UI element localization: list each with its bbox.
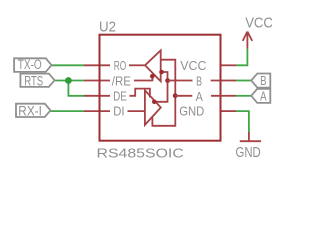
pin B	[221, 80, 236, 82]
internal net B path	[155, 72, 168, 102]
svg-text:B: B	[260, 73, 266, 88]
internal wire RO to receiver	[129, 64, 145, 66]
junction receiver B tap	[159, 70, 164, 75]
svg-text:RO: RO	[114, 58, 127, 73]
receiver buffer triangle	[145, 50, 161, 81]
junction B line	[165, 78, 170, 83]
pin /RE	[84, 80, 110, 82]
svg-text:RTS: RTS	[24, 73, 43, 88]
internal net A path	[152, 60, 175, 126]
wire A net	[236, 95, 252, 97]
bubble /RE	[150, 74, 155, 79]
internal wire A to pin	[175, 95, 221, 97]
svg-text:GND: GND	[236, 145, 261, 161]
svg-text:A: A	[260, 88, 267, 103]
internal wire DI to driver	[128, 110, 145, 112]
net flag TX-O	[14, 58, 51, 72]
junction driver B tap	[152, 100, 157, 105]
pin A	[221, 95, 236, 97]
junction RTS	[65, 77, 72, 84]
wire RTS branch to DE	[68, 81, 84, 96]
junction A line	[173, 93, 178, 98]
net flag A	[251, 89, 270, 103]
svg-text:DE: DE	[113, 88, 127, 103]
net flag RX-I	[16, 104, 51, 117]
svg-text:RS485SOIC: RS485SOIC	[97, 146, 185, 161]
svg-text:DI: DI	[113, 104, 124, 119]
svg-text:GND: GND	[179, 104, 204, 119]
pin DE	[84, 95, 110, 97]
ground symbol GND	[240, 132, 261, 141]
svg-text:U2: U2	[99, 20, 116, 36]
wire RX-I to DI	[51, 110, 85, 112]
pin VCC	[221, 64, 236, 66]
wire TX-O to RO	[52, 64, 85, 66]
svg-text:VCC: VCC	[245, 16, 273, 32]
svg-text:RX-I: RX-I	[18, 104, 42, 119]
internal wire DE enable	[130, 89, 150, 98]
svg-text:TX-O: TX-O	[18, 57, 42, 72]
pin GND	[221, 110, 236, 112]
pin RO	[84, 64, 110, 66]
internal wire /RE enable	[134, 78, 152, 81]
IC U2 box	[100, 35, 221, 141]
svg-text:A: A	[196, 89, 204, 104]
wire VCC net	[236, 48, 247, 65]
wire B net	[236, 80, 252, 82]
power symbol VCC arrow	[243, 32, 253, 49]
svg-text:VCC: VCC	[180, 58, 206, 73]
net flag RTS	[20, 74, 54, 87]
wire RTS to /RE	[55, 80, 84, 82]
driver buffer triangle	[145, 90, 161, 125]
wire GND net	[236, 111, 249, 132]
net flag B	[251, 74, 270, 88]
svg-text:B: B	[196, 74, 202, 89]
svg-text:/RE: /RE	[112, 74, 131, 89]
pin DI	[84, 110, 110, 112]
internal wire B to pin	[168, 80, 222, 82]
